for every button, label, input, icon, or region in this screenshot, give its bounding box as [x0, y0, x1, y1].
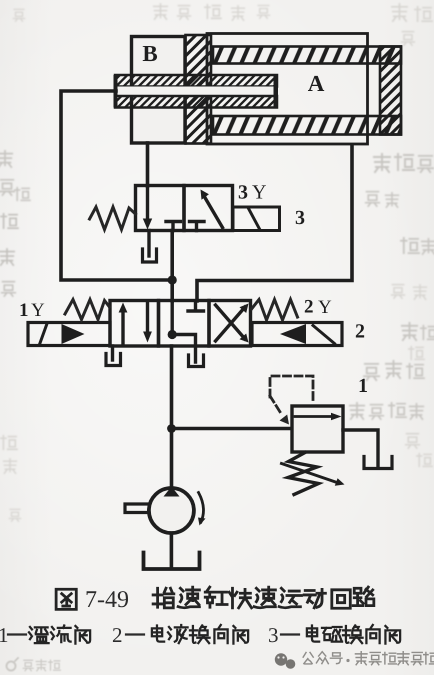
wire: cylinder B port down to valve 3: [146, 143, 150, 186]
路: [353, 587, 374, 605]
svg-text:2: 2: [355, 321, 365, 343]
relief valve 1: body box: [292, 406, 343, 452]
回: [332, 590, 350, 608]
cylinder A barrel bottom wall (hatched): [213, 116, 401, 135]
wire: rod bore to left rail down to main junction: [61, 91, 168, 280]
溢: [29, 627, 49, 643]
tank symbol under valve 2 left box: [106, 346, 121, 366]
node: pump line junction dot: [167, 424, 176, 433]
电: [152, 625, 164, 641]
阀: [385, 626, 400, 644]
流: [51, 625, 71, 642]
向: [366, 625, 379, 643]
valve 3: solenoid box 3Y: [233, 207, 280, 231]
动: [304, 589, 325, 607]
relief valve 1: pilot arrowhead: [280, 415, 290, 425]
valve 3: flow path arrow (left box, down): [143, 186, 152, 230]
svg-text:Y: Y: [252, 182, 266, 204]
valve 2 (electro-hydraulic directional valve): left position box: [110, 301, 159, 347]
valve 2: crossed arrows X (right box): [216, 304, 249, 343]
tank symbol under valve 2 centre box: [189, 355, 204, 367]
svg-text:1: 1: [358, 375, 368, 397]
valve 2: left solenoid box 1Y with pilot triangle: [28, 323, 110, 346]
node: main junction dot: [168, 275, 177, 284]
图: [56, 589, 76, 609]
阀: [233, 626, 248, 644]
cylinder B body (left box): [132, 37, 186, 144]
valve 3 (solenoid directional valve): left position box: [136, 186, 185, 231]
svg-text:7-49: 7-49: [85, 587, 129, 613]
svg-text:2: 2: [304, 297, 314, 318]
valve 2: right solenoid box 2Y with pilot triangle: [252, 323, 342, 346]
relief valve 1: adjustment arrow: [282, 464, 345, 486]
valve 2: right spring: [252, 300, 298, 321]
cylinder outer shell (thin rectangle around cylinder A): [207, 34, 368, 145]
node: centre box junction dot: [168, 330, 177, 339]
relief valve 1: pilot line (dashed): [270, 376, 313, 415]
svg-text:Y: Y: [318, 297, 332, 318]
wire: valve 2 A-port up, over, and up to cylinder A shell port: [197, 145, 352, 301]
valve 2: left spring: [65, 300, 110, 320]
valve 2: centre position box: [159, 301, 210, 347]
tank symbol under pump: [144, 553, 200, 570]
valve 3: crossed flow arrow (right box): [201, 190, 223, 228]
valve 3: return spring (left): [90, 207, 136, 230]
向: [214, 625, 227, 643]
pump: suction stub: [125, 504, 148, 513]
svg-text:A: A: [308, 71, 325, 96]
运: [279, 588, 301, 608]
relief valve 1: adjustable spring: [288, 453, 319, 495]
piston (hatched bar): [186, 35, 212, 144]
hollow piston rod: top wall (hatched): [115, 75, 277, 87]
缸: [205, 587, 227, 607]
wire: branch to relief valve 1: [172, 427, 293, 431]
svg-text:3: 3: [268, 623, 279, 647]
svg-text:3: 3: [238, 182, 248, 204]
svg-text:Y: Y: [31, 300, 45, 321]
pump: outlet triangle: [164, 487, 180, 497]
液: [168, 625, 188, 643]
wire: pump inlet down to tank: [170, 534, 174, 568]
wire: valve 3 bottom port through junction down to valve 2: [170, 231, 174, 302]
watermark: wechat icon: [275, 653, 296, 669]
cylinder A barrel right end cap (hatched): [380, 47, 401, 135]
svg-text:B: B: [142, 41, 157, 66]
svg-text:1: 1: [19, 300, 29, 321]
tank symbol under valve 3 drain: [143, 231, 157, 263]
hollow piston rod: bottom wall (hatched): [115, 96, 277, 108]
wire: pump pressure line up to valve 2: [170, 346, 174, 487]
hollow piston rod: bore (white): [116, 87, 276, 97]
wire: relief valve outlet to tank: [343, 430, 378, 466]
pump: circle: [149, 488, 194, 533]
pump: rotation arc: [199, 493, 204, 523]
valve 3: right position box: [184, 186, 233, 231]
cylinder A barrel top wall (hatched): [213, 47, 401, 64]
快: [229, 588, 251, 608]
电: [307, 625, 319, 641]
valve 2: centre box unloading path with junction: [172, 301, 195, 362]
figure caption 图 7-49 增速缸快速运动回路 (stroke-rendered): [56, 587, 374, 609]
valve 2: blocked port T (centre box): [188, 302, 204, 311]
磁: [322, 627, 342, 642]
速: [254, 587, 275, 608]
valve 2: down arrow (left box): [143, 301, 152, 343]
rod left end cap: [114, 75, 118, 108]
rod right end cap: [274, 75, 279, 108]
valve 2: right position box: [209, 301, 251, 347]
valve 2: up arrow (left box): [119, 303, 128, 346]
增: [153, 588, 174, 608]
watermark text 公众号·新迎的欢喜处: [303, 652, 434, 665]
换: [343, 625, 363, 643]
svg-text:2: 2: [112, 623, 123, 647]
阀: [75, 626, 90, 644]
watermark bottom-left logo: [7, 658, 61, 671]
valve 3: blocked port T (right box): [190, 222, 205, 231]
svg-text:3: 3: [295, 207, 305, 229]
换: [190, 625, 210, 643]
tank symbol at relief valve outlet: [364, 457, 392, 469]
速: [178, 587, 199, 608]
bleed-through ghost text: [0, 4, 432, 521]
relief valve 1: internal flow arrow: [295, 413, 342, 421]
valve 3: blocked port T (left box): [166, 222, 181, 231]
